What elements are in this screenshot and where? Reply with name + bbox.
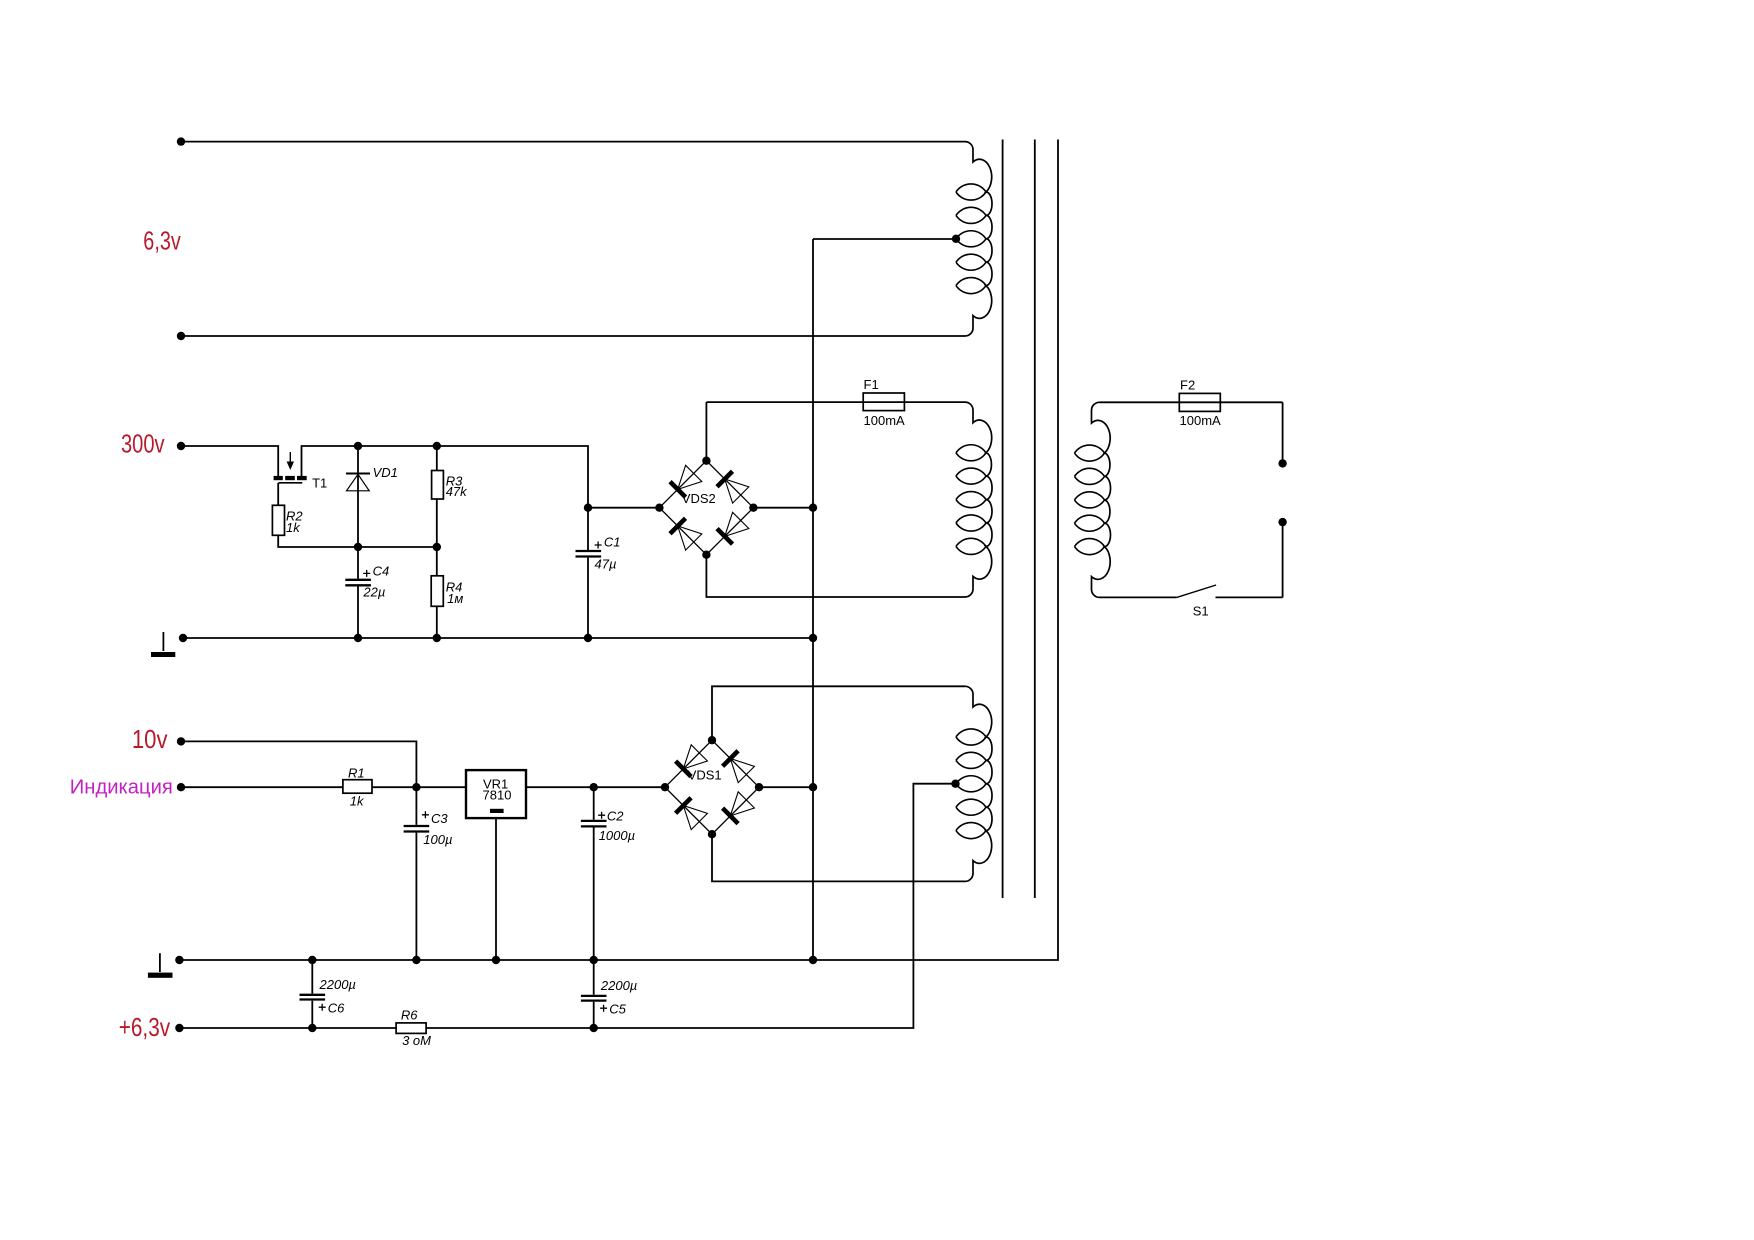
- junction gnd rail C1: [584, 634, 592, 642]
- node 6,3v bottom terminal: [177, 332, 185, 340]
- junction C2 top: [590, 783, 598, 791]
- junction R1/C3: [412, 783, 420, 791]
- transistor T1: [274, 452, 307, 483]
- ground symbol lower: [148, 953, 173, 978]
- bridge rectifier VDS2: [659, 461, 753, 555]
- svg-text:1k: 1k: [350, 793, 365, 808]
- wire T1 source to C1 top: [302, 446, 589, 550]
- wire VDS2 bottom to winding: [706, 555, 965, 597]
- transformer core line 3 / ground screen: [179, 140, 1058, 961]
- node 10v terminal: [177, 737, 185, 745]
- wire 10v: [183, 741, 416, 787]
- resistor R3: [432, 471, 444, 500]
- svg-text:R6: R6: [401, 1008, 418, 1023]
- node W3 tap: [951, 780, 959, 788]
- capacitor C4: [345, 547, 371, 638]
- junction C1 top: [584, 504, 592, 512]
- wire F2 row: [1100, 401, 1283, 403]
- ground rail 300v section: [183, 637, 813, 639]
- svg-text:1k: 1k: [286, 520, 301, 535]
- svg-text:T1: T1: [312, 476, 327, 491]
- wire R3 column: [436, 446, 438, 471]
- svg-text:100mA: 100mA: [1180, 413, 1222, 428]
- node terminal lower: [1278, 518, 1286, 526]
- wire R4 to ground rail: [436, 606, 438, 638]
- svg-text:47µ: 47µ: [595, 557, 617, 572]
- junction +6,3v C6: [308, 1024, 316, 1032]
- svg-text:100mA: 100mA: [864, 413, 906, 428]
- resistor R6: [396, 1023, 426, 1034]
- transformer winding W1 (6,3v): [956, 142, 992, 336]
- capacitor C5: [581, 960, 607, 1028]
- node terminal upper: [1278, 459, 1286, 467]
- wire VDS2 top to F1 row: [705, 402, 707, 461]
- junction VDS2 bottom: [702, 551, 710, 559]
- wire VR1 gnd pin: [495, 818, 497, 960]
- wire F2 to terminal: [1282, 402, 1284, 463]
- wire C1 to VDS2 left: [588, 507, 659, 509]
- svg-text:47k: 47k: [446, 484, 468, 499]
- wire VDS1 right to bus: [759, 786, 813, 788]
- wire bus vertical: [812, 239, 814, 960]
- ground symbol upper: [151, 632, 175, 657]
- wire 300v to T1 drain: [181, 446, 278, 476]
- junction bottom gnd left: [175, 956, 183, 964]
- junction +6,3v C5: [590, 1024, 598, 1032]
- svg-text:F1: F1: [864, 377, 879, 392]
- svg-text:VDS2: VDS2: [682, 491, 716, 506]
- svg-text:S1: S1: [1193, 604, 1209, 619]
- wire T1 to R2: [277, 483, 279, 506]
- svg-text:3 оМ: 3 оМ: [402, 1033, 431, 1048]
- svg-text:300v: 300v: [121, 429, 165, 459]
- svg-text:C4: C4: [373, 564, 390, 579]
- wire R2 bottom to mid rail: [278, 535, 437, 547]
- transformer winding W2 (300v): [956, 402, 992, 597]
- svg-text:2200µ: 2200µ: [600, 978, 637, 993]
- junction gnd rail left: [179, 634, 187, 642]
- wire VDS1 top to W3: [712, 686, 965, 740]
- fuse F2: [1179, 393, 1220, 411]
- svg-text:Индикация: Индикация: [70, 776, 173, 798]
- svg-text:10v: 10v: [132, 724, 168, 754]
- wire 6,3v bottom: [181, 335, 965, 337]
- wire terminal to S1: [1282, 522, 1284, 597]
- resistor R2: [272, 505, 284, 535]
- capacitor C6: [300, 960, 326, 1028]
- junction bus / VDS2: [809, 504, 817, 512]
- svg-text:F2: F2: [1180, 377, 1195, 392]
- diode VD1: [346, 446, 370, 547]
- junction gnd C3: [412, 956, 420, 964]
- svg-text:C3: C3: [431, 811, 448, 826]
- node Indikacia terminal: [177, 783, 185, 791]
- junction VDS1 left: [661, 783, 669, 791]
- junction gnd C6: [308, 956, 316, 964]
- svg-text:1000µ: 1000µ: [599, 828, 635, 843]
- fuse F1: [863, 393, 904, 411]
- node W1 tap: [952, 235, 960, 243]
- svg-text:C1: C1: [604, 534, 621, 549]
- bridge rectifier VDS1: [665, 740, 759, 834]
- transformer core line 2: [1034, 140, 1036, 899]
- junction R3 top: [433, 442, 441, 450]
- svg-text:C2: C2: [607, 809, 624, 824]
- junction gnd rail to bus: [809, 634, 817, 642]
- capacitor C1: [576, 542, 602, 639]
- svg-text:6,3v: 6,3v: [143, 225, 181, 255]
- wire W1 center tap: [813, 238, 956, 240]
- wire S1 row right: [1216, 596, 1283, 598]
- regulator VR1: [466, 770, 526, 818]
- svg-text:VD1: VD1: [373, 465, 398, 480]
- junction VDS1 bottom: [708, 830, 716, 838]
- node 6,3v top terminal: [177, 137, 185, 145]
- node 300v terminal: [177, 442, 185, 450]
- switch S1 blade: [1177, 585, 1216, 597]
- junction VDS2 top: [702, 457, 710, 465]
- svg-text:C5: C5: [609, 1001, 626, 1016]
- junction VDS1 top: [708, 736, 716, 744]
- junction gnd VR1: [492, 956, 500, 964]
- svg-text:+6,3v: +6,3v: [119, 1012, 170, 1042]
- svg-text:C6: C6: [328, 1000, 345, 1015]
- resistor R4: [431, 576, 443, 607]
- junction VDS2 right: [749, 504, 757, 512]
- wire F1 row: [706, 401, 965, 403]
- wire W3 tap down to +6,3v rail: [179, 784, 956, 1028]
- svg-text:22µ: 22µ: [362, 585, 385, 600]
- wire R3 to R4: [436, 499, 438, 576]
- transformer winding W3 (10v): [956, 686, 992, 881]
- wire Indikacia to VR1: [183, 786, 466, 788]
- wire VDS2 right to bus: [753, 507, 813, 509]
- wire VDS1 bottom to W3: [712, 834, 965, 881]
- wire 6,3v top: [181, 141, 965, 143]
- svg-text:100µ: 100µ: [423, 832, 452, 847]
- svg-text:1м: 1м: [447, 591, 463, 606]
- wire VR1 out: [526, 786, 665, 788]
- junction VDS2 left: [655, 504, 663, 512]
- junction VDS1 right: [755, 783, 763, 791]
- transformer winding W4 (primary): [1075, 402, 1111, 597]
- node +6,3v terminal: [175, 1024, 183, 1032]
- junction mid rail / VD1: [354, 543, 362, 551]
- junction gnd bus: [809, 956, 817, 964]
- junction gnd rail C4: [354, 634, 362, 642]
- svg-text:7810: 7810: [483, 788, 512, 803]
- svg-text:VDS1: VDS1: [688, 768, 722, 783]
- junction gnd rail R4: [433, 634, 441, 642]
- svg-text:R1: R1: [348, 766, 365, 781]
- transformer core line 1: [1002, 140, 1004, 899]
- capacitor C3: [404, 787, 430, 960]
- junction VD1 top: [354, 442, 362, 450]
- junction mid rail / R3-R4: [433, 543, 441, 551]
- capacitor C2: [581, 787, 607, 960]
- resistor R1: [343, 780, 372, 794]
- junction gnd C2/C5: [590, 956, 598, 964]
- junction bus / VDS1: [809, 783, 817, 791]
- wire S1 row left: [1100, 596, 1177, 598]
- svg-text:2200µ: 2200µ: [319, 977, 356, 992]
